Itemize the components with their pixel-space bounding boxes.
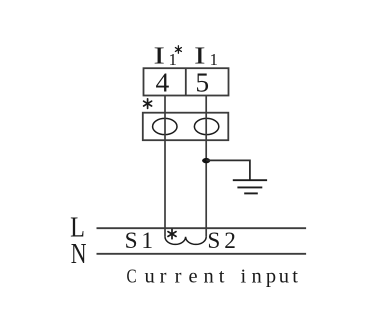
svg-text:1: 1: [169, 50, 178, 69]
ground symbol: [233, 180, 267, 193]
svg-text:C: C: [127, 264, 137, 287]
wire from junction to ground: [206, 160, 250, 180]
polarity asterisk at S1: [168, 229, 176, 239]
L phase line: [97, 227, 307, 229]
polarity asterisk at CT box: [144, 99, 152, 109]
svg-text:urrent input: urrent input: [145, 266, 299, 288]
svg-text:S 1: S 1: [125, 228, 153, 254]
junction node on wire 5: [202, 158, 210, 163]
svg-text:I: I: [153, 43, 165, 69]
label I1* (left current terminal label): [153, 43, 177, 69]
wire from terminal 5 down to CT winding: [205, 96, 207, 237]
terminal block (terminals 4 and 5): [144, 68, 229, 95]
svg-text:L: L: [70, 211, 85, 243]
N neutral line: [97, 253, 307, 255]
CT coil box: [143, 113, 229, 141]
asterisk on label I1*: [175, 46, 181, 53]
svg-text:I: I: [194, 43, 206, 69]
CT secondary winding bumps on L line: [165, 237, 206, 245]
svg-text:S 2: S 2: [207, 228, 236, 254]
label I1 (right current terminal label): [194, 43, 218, 69]
CT coil right ellipse: [194, 118, 218, 134]
svg-text:5: 5: [195, 67, 209, 98]
svg-text:1: 1: [210, 50, 219, 69]
svg-text:N: N: [71, 240, 87, 270]
CT coil left ellipse: [153, 118, 177, 134]
wire from terminal 4 down to CT winding: [164, 96, 166, 237]
svg-text:4: 4: [156, 67, 170, 98]
